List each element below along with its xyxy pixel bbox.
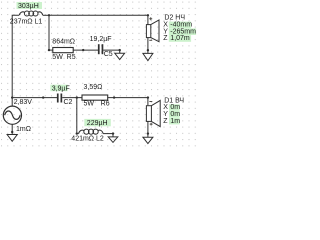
resistor R6 — [82, 95, 108, 100]
wire top rail left (source to L1) — [12, 15, 19, 106]
node mid rail joint — [42, 96, 44, 98]
wire C2 to R6 — [62, 97, 82, 99]
svg-text:1,07m: 1,07m — [170, 35, 190, 42]
speaker D2 — [146, 20, 159, 42]
label L1 value 303µH — [17, 2, 43, 10]
svg-text:C2: C2 — [64, 99, 73, 106]
wire mid rail to C2 — [12, 97, 57, 99]
node D2 ground — [147, 49, 149, 51]
label C2 value 3,9µF — [50, 85, 69, 93]
voltage source V1 — [3, 106, 21, 124]
svg-text:237mΩ L1: 237mΩ L1 — [10, 19, 43, 26]
resistor R5 — [53, 48, 73, 53]
node R5 left — [48, 49, 50, 51]
capacitor C2 — [57, 94, 62, 103]
ground source — [7, 132, 17, 141]
svg-text:R6: R6 — [101, 101, 110, 108]
wire source to ground — [11, 124, 13, 132]
ground L2 — [108, 134, 118, 143]
wire D2 bottom — [147, 38, 149, 51]
node corner D2 — [147, 14, 149, 16]
node R5 right — [82, 49, 84, 51]
svg-text:1mΩ: 1mΩ — [16, 126, 31, 133]
node D1 ground — [147, 132, 149, 134]
svg-text:3,9µF: 3,9µF — [52, 85, 70, 92]
minus sign D1 — [149, 101, 152, 103]
node L2 left corner — [76, 132, 78, 134]
svg-text:Z: Z — [163, 35, 168, 42]
svg-text:2,83V: 2,83V — [14, 99, 33, 106]
svg-text:229µH: 229µH — [87, 120, 108, 127]
speaker D1 — [146, 100, 160, 126]
wire D2 top — [147, 15, 149, 24]
wire top rail right (node A to D2) — [49, 14, 148, 16]
wire node A down to R5 — [48, 15, 50, 50]
svg-text:D2 НЧ: D2 НЧ — [164, 15, 185, 22]
node source ground — [11, 131, 13, 133]
wire to R5 — [49, 49, 53, 51]
node L2 right — [112, 132, 114, 134]
svg-text:864mΩ: 864mΩ — [52, 38, 75, 45]
svg-text:3,59Ω: 3,59Ω — [84, 84, 103, 91]
svg-text:19,2µF: 19,2µF — [90, 36, 112, 43]
plus sign D2 — [149, 17, 152, 20]
svg-text:Z: Z — [163, 118, 168, 125]
svg-text:5W: 5W — [52, 54, 63, 61]
svg-text:1m: 1m — [170, 118, 180, 125]
label L2 value 229µH — [84, 119, 111, 127]
wire C5 to ground — [103, 49, 119, 51]
wire R6 to D1 — [108, 98, 148, 106]
svg-text:5W: 5W — [84, 101, 95, 108]
wire R5 to C5 — [73, 49, 98, 51]
svg-text:421mΩ L2: 421mΩ L2 — [71, 136, 104, 143]
plus sign D1 — [150, 123, 153, 126]
ground C5 — [115, 50, 125, 60]
node corner D1 — [147, 96, 149, 98]
wire D1 bottom — [147, 121, 149, 133]
minus sign D2 — [149, 39, 152, 41]
node A junction — [48, 14, 50, 16]
inductor L2 — [77, 129, 113, 134]
inductor L1 — [19, 11, 49, 16]
ground D2 — [143, 50, 153, 60]
svg-text:C5: C5 — [104, 51, 113, 58]
svg-text:R5: R5 — [67, 54, 76, 61]
ground D1 — [143, 134, 153, 144]
svg-text:303µH: 303µH — [18, 3, 39, 10]
wire C2 junction down to L2 — [76, 98, 78, 134]
node source mid junction — [11, 96, 13, 98]
node C5 ground corner — [119, 49, 121, 51]
node C2-L2 junction — [76, 96, 78, 98]
node R6 right — [113, 96, 115, 98]
capacitor C5 — [98, 44, 103, 54]
